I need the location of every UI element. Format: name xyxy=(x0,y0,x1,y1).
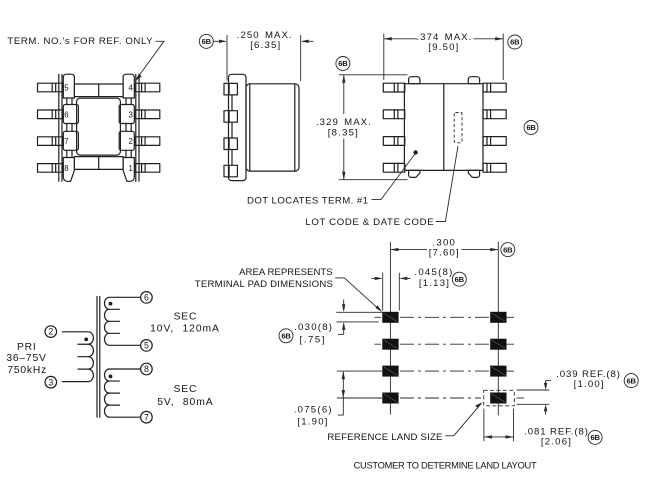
core body side xyxy=(246,84,299,171)
terminal circle 5 xyxy=(141,340,153,352)
pad 1R row1 right xyxy=(490,312,506,323)
svg-text:6B: 6B xyxy=(627,376,637,385)
lead 5 xyxy=(38,83,64,92)
pad 2R row2 right xyxy=(490,339,506,350)
terminal circle 2 xyxy=(45,326,57,338)
core line left xyxy=(96,297,98,418)
extension line .329 bottom xyxy=(339,179,408,181)
core window xyxy=(77,98,121,155)
corner tab bottom left xyxy=(409,170,420,177)
terminal 1 locating dot xyxy=(413,150,417,154)
terminal circle 8 xyxy=(141,363,153,375)
pad column centerline right xyxy=(497,242,499,416)
row 2 centerline xyxy=(375,343,515,345)
svg-text:6B: 6B xyxy=(590,433,600,442)
arrow .030 bottom with leader xyxy=(338,322,345,335)
svg-text:6B: 6B xyxy=(455,275,465,284)
pad 1L row1 left xyxy=(382,312,398,323)
dim line .081 xyxy=(484,435,514,438)
leader reference land size xyxy=(445,402,483,436)
arrow .045 right xyxy=(399,277,410,280)
terminal circle 3 xyxy=(45,376,57,388)
extension line left xyxy=(226,35,228,81)
svg-text:8: 8 xyxy=(144,364,149,374)
corner tab top left xyxy=(409,77,420,84)
svg-text:TERMINAL PAD DIMENSIONS: TERMINAL PAD DIMENSIONS xyxy=(195,279,333,290)
pad 3R row3 right xyxy=(490,366,506,377)
leader for lot code label xyxy=(436,146,458,222)
lead 2 side profile xyxy=(224,111,237,123)
svg-text:10V, 120mA: 10V, 120mA xyxy=(150,324,220,335)
svg-text:[7.60]: [7.60] xyxy=(429,248,460,259)
svg-text:2: 2 xyxy=(48,327,53,337)
terminal 7 xyxy=(63,131,78,150)
terminal 5 xyxy=(63,74,74,98)
lead 4 side profile xyxy=(224,165,237,177)
lot code area dashed box xyxy=(454,113,462,143)
dim line .300 right segment xyxy=(462,248,499,251)
svg-text:TERM. NO.’s FOR REF. ONLY: TERM. NO.’s FOR REF. ONLY xyxy=(7,36,153,47)
FIGURE 3 : transformer bottom view xyxy=(247,32,538,228)
body center parting line xyxy=(443,84,445,171)
pad column centerline left xyxy=(389,242,391,415)
lead 1 xyxy=(135,164,160,173)
svg-text:6: 6 xyxy=(144,293,149,303)
primary phase dot xyxy=(84,338,88,342)
svg-text:[2.06]: [2.06] xyxy=(541,436,572,447)
svg-text:.250 MAX.: .250 MAX. xyxy=(237,30,293,41)
FIGURE 4 : transformer schematic xyxy=(6,292,220,423)
svg-text:3: 3 xyxy=(48,377,53,387)
svg-text:6B: 6B xyxy=(202,37,212,46)
corner tab bottom right xyxy=(468,170,479,177)
dim line .329 vertical xyxy=(342,75,345,180)
bobbin flange outline xyxy=(229,74,247,180)
svg-text:5V, 80mA: 5V, 80mA xyxy=(157,397,213,408)
balloon 6B for .039 xyxy=(624,374,638,388)
neck 5-6 xyxy=(67,98,131,104)
balloon 6B for .300 xyxy=(501,243,515,257)
row 4 centerline xyxy=(400,397,481,399)
svg-text:CUSTOMER TO DETERMINE LAND LAY: CUSTOMER TO DETERMINE LAND LAYOUT xyxy=(354,460,537,470)
svg-text:[8.35]: [8.35] xyxy=(328,128,359,139)
svg-text:DOT LOCATES TERM. #1: DOT LOCATES TERM. #1 xyxy=(247,196,369,207)
svg-text:6B: 6B xyxy=(526,123,536,132)
extension line .075 top xyxy=(337,370,382,372)
svg-text:6: 6 xyxy=(64,110,68,119)
extension line .081 right xyxy=(513,409,515,442)
svg-text:4: 4 xyxy=(129,84,134,93)
leader for dot label xyxy=(372,155,415,200)
svg-text:6B: 6B xyxy=(281,332,291,341)
svg-text:PRI: PRI xyxy=(17,342,37,353)
leader area represents xyxy=(335,278,382,312)
svg-text:8: 8 xyxy=(64,164,68,173)
svg-text:7: 7 xyxy=(64,137,68,146)
FIGURE 5 : recommended land pattern xyxy=(195,237,638,470)
lead 7 xyxy=(38,137,64,146)
svg-text:.075(6): .075(6) xyxy=(294,404,333,415)
pad 3L row3 left xyxy=(382,366,398,377)
svg-text:SEC: SEC xyxy=(174,311,198,322)
balloon 6B for .045 xyxy=(452,272,466,286)
svg-text:AREA REPRESENTS: AREA REPRESENTS xyxy=(239,267,333,278)
lead 2 bottom view xyxy=(483,137,506,146)
neck 6-7 xyxy=(67,124,131,132)
core body right edge line xyxy=(294,84,296,171)
row 1 centerline xyxy=(375,316,515,318)
arrow .039 bottom xyxy=(544,404,547,414)
lead 6 bottom view xyxy=(383,110,405,119)
extension line .039 bottom xyxy=(517,403,550,405)
bottom bar xyxy=(74,157,123,170)
svg-text:LOT CODE & DATE CODE: LOT CODE & DATE CODE xyxy=(305,217,434,228)
row 3 centerline xyxy=(400,370,515,372)
terminal circle 7 xyxy=(141,411,153,423)
row 4 centerline right stub xyxy=(517,397,525,399)
core body left edge line xyxy=(249,84,251,171)
balloon 6B for .081 xyxy=(588,430,602,444)
dim line .300 left segment xyxy=(390,248,427,251)
svg-text:.045(8): .045(8) xyxy=(414,267,453,278)
top bar xyxy=(74,84,123,97)
svg-text:6B: 6B xyxy=(338,59,348,68)
extension line .045 right xyxy=(398,273,400,311)
terminal circle 6 xyxy=(141,292,153,304)
secondary 1 phase dot xyxy=(109,302,113,306)
leader arrow from balloon to extension line xyxy=(214,40,227,43)
secondary winding 2 xyxy=(104,369,140,417)
extension line .374 left xyxy=(383,34,385,81)
svg-text:3: 3 xyxy=(129,110,133,119)
reference land dashed box xyxy=(484,390,515,406)
terminal 4 xyxy=(123,74,134,98)
lead 3 xyxy=(135,110,160,119)
extension line .030 top xyxy=(336,311,382,313)
lead 2 xyxy=(135,137,160,146)
lead 4 xyxy=(135,83,160,92)
dim line .075 vertical xyxy=(338,371,345,415)
svg-text:6B: 6B xyxy=(503,245,513,254)
svg-text:[1.00]: [1.00] xyxy=(574,379,605,390)
lead 8 xyxy=(38,164,64,173)
terminal 8 xyxy=(63,158,74,182)
svg-text:[9.50]: [9.50] xyxy=(428,42,459,53)
svg-text:.329 MAX.: .329 MAX. xyxy=(316,117,372,128)
extension line .374 right xyxy=(502,34,504,81)
lead 4 bottom view xyxy=(483,83,506,92)
svg-text:6B: 6B xyxy=(510,38,520,47)
lead 1 side profile xyxy=(224,83,237,95)
extension line .081 left xyxy=(483,409,485,442)
balloon 6B upper left xyxy=(336,57,350,71)
extension line .329 top xyxy=(339,74,408,76)
pad 4R row4 right xyxy=(490,393,506,404)
extension line .045 left xyxy=(382,273,384,311)
flange groove edge xyxy=(231,95,233,165)
arrow .030 top xyxy=(342,300,345,313)
balloon 6B right of .374 xyxy=(508,35,522,49)
balloon 6B right side xyxy=(524,121,538,135)
terminal 3 xyxy=(119,105,134,124)
svg-text:5: 5 xyxy=(64,84,69,93)
terminal 2 xyxy=(119,131,134,150)
corner tab top right xyxy=(468,77,479,84)
balloon 6B xyxy=(199,34,213,48)
right arrow of .250 dim xyxy=(301,40,314,43)
lead 7 bottom view xyxy=(383,137,405,146)
primary winding xyxy=(62,332,93,382)
dim line .374 right segment xyxy=(474,37,504,40)
right flange rail xyxy=(135,74,137,181)
FIGURE 2 : transformer side view xyxy=(199,30,313,181)
lead 1 bottom view xyxy=(483,163,506,172)
terminal 6 xyxy=(63,105,78,124)
lead 6 xyxy=(38,110,64,119)
svg-text:1: 1 xyxy=(129,164,133,173)
balloon 6B for .030 xyxy=(279,329,293,343)
secondary winding 1 xyxy=(105,297,141,345)
lead 3 side profile xyxy=(224,138,237,150)
extension line .075 bottom xyxy=(337,397,382,399)
lead 3 bottom view xyxy=(483,110,506,119)
lead 8 bottom view xyxy=(383,163,405,172)
svg-text:[.75]: [.75] xyxy=(299,335,326,346)
extension line right xyxy=(300,35,302,81)
arrow .039 top with leader xyxy=(544,381,551,390)
core line right xyxy=(99,297,101,418)
svg-text:7: 7 xyxy=(144,412,149,422)
svg-text:750kHz: 750kHz xyxy=(7,365,47,376)
pad 4L row4 left xyxy=(382,393,398,404)
left flange rail xyxy=(58,74,60,181)
svg-text:[6.35]: [6.35] xyxy=(250,40,281,51)
neck 7-8 xyxy=(67,150,131,157)
arrow .045 left xyxy=(371,277,382,280)
svg-text:SEC: SEC xyxy=(174,384,198,395)
package body outline xyxy=(404,84,483,171)
extension line .030 bottom xyxy=(336,321,378,323)
svg-text:5: 5 xyxy=(144,341,149,351)
svg-text:36–75V: 36–75V xyxy=(6,353,46,364)
svg-text:[1.90]: [1.90] xyxy=(297,416,328,427)
secondary 2 phase dot xyxy=(109,375,113,379)
terminal 1 xyxy=(123,158,134,182)
extension line .039 top xyxy=(517,389,550,391)
svg-text:REFERENCE LAND SIZE: REFERENCE LAND SIZE xyxy=(327,432,442,443)
FIGURE 1 : transformer top view xyxy=(7,36,164,182)
svg-text:2: 2 xyxy=(129,137,133,146)
svg-text:[1.13]: [1.13] xyxy=(419,278,450,289)
leader to terminal 4 xyxy=(137,41,165,79)
dim line .374 left segment xyxy=(384,37,417,40)
svg-text:.030(8): .030(8) xyxy=(294,322,333,333)
pad 2L row2 left xyxy=(382,339,398,350)
lead 5 bottom view xyxy=(383,83,405,92)
